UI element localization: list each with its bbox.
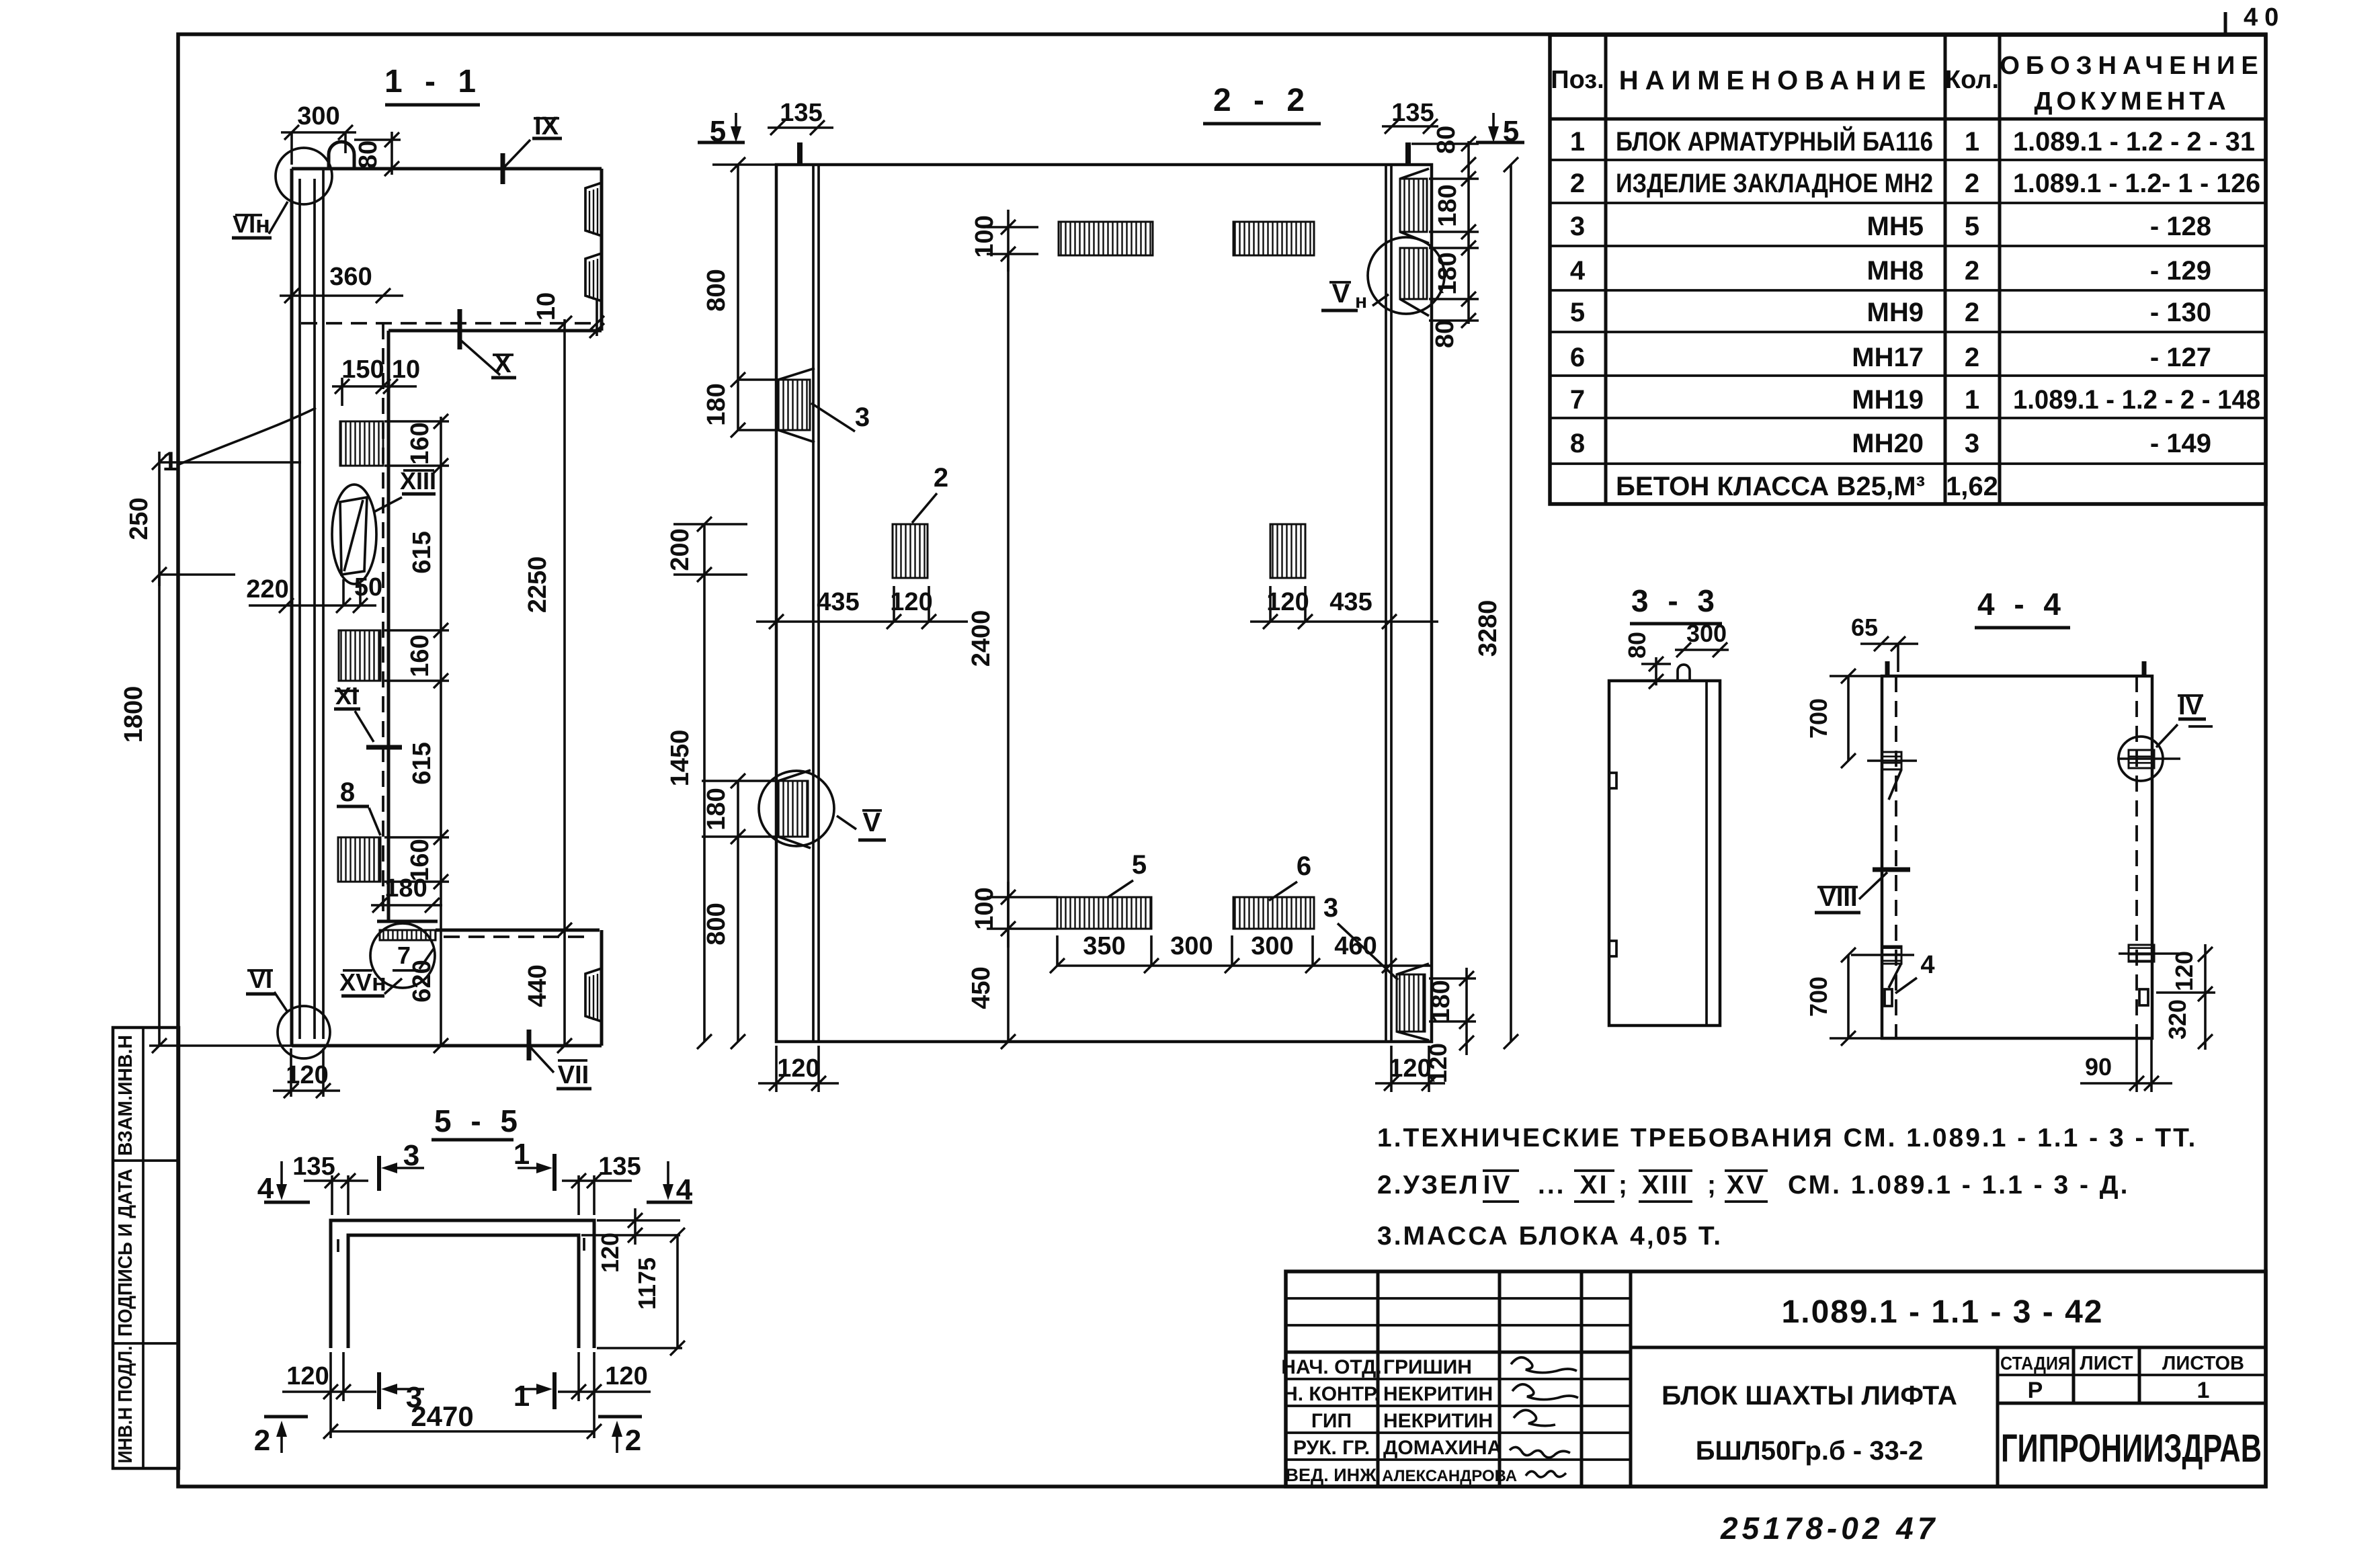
svg-text:435: 435 <box>817 588 859 616</box>
svg-text:300: 300 <box>1170 932 1213 960</box>
svg-text:Н. КОНТР.: Н. КОНТР. <box>1283 1383 1380 1405</box>
svg-text:90: 90 <box>2085 1053 2112 1081</box>
svg-text:VI: VI <box>249 966 272 993</box>
svg-text:440: 440 <box>524 964 552 1007</box>
svg-text:ПОДПИСЬ И ДАТА: ПОДПИСЬ И ДАТА <box>115 1169 136 1337</box>
svg-text:ОБОЗНАЧЕНИЕ: ОБОЗНАЧЕНИЕ <box>2000 52 2264 80</box>
svg-text:120: 120 <box>1389 1054 1431 1083</box>
svg-text:2: 2 <box>625 1424 641 1457</box>
svg-text:2: 2 <box>1965 343 1979 372</box>
svg-text:8: 8 <box>1570 429 1585 458</box>
svg-text:6: 6 <box>1297 851 1311 881</box>
svg-text:НЕКРИТИН: НЕКРИТИН <box>1383 1383 1493 1405</box>
svg-text:IX: IX <box>534 112 559 140</box>
svg-text:1.089.1 - 1.2 - 2 - 31: 1.089.1 - 1.2 - 2 - 31 <box>2013 127 2255 157</box>
svg-text:1.089.1 - 1.1 - 3 - 42: 1.089.1 - 1.1 - 3 - 42 <box>1782 1294 2104 1330</box>
svg-text:3280: 3280 <box>1474 600 1502 657</box>
svg-text:VIн: VIн <box>233 210 270 238</box>
svg-text:800: 800 <box>702 269 731 311</box>
svg-text:460: 460 <box>1334 932 1377 960</box>
svg-text:IV: IV <box>1483 1171 1512 1200</box>
svg-text:1,62: 1,62 <box>1946 472 1998 501</box>
svg-text:80: 80 <box>354 140 382 169</box>
svg-text:3: 3 <box>1323 893 1338 923</box>
svg-text:ИНВ.Н ПОДЛ.: ИНВ.Н ПОДЛ. <box>115 1346 136 1464</box>
svg-text:450: 450 <box>967 966 995 1009</box>
svg-text:320: 320 <box>2164 999 2191 1040</box>
svg-text:2: 2 <box>1965 256 1979 286</box>
svg-text:180: 180 <box>702 383 731 425</box>
svg-text:ЛИСТОВ: ЛИСТОВ <box>2162 1353 2244 1374</box>
svg-text:120: 120 <box>596 1232 624 1273</box>
svg-text:ВЗАМ.ИНВ.Н: ВЗАМ.ИНВ.Н <box>115 1035 136 1156</box>
svg-text:ГИП: ГИП <box>1311 1410 1352 1432</box>
svg-text:2: 2 <box>1965 298 1979 327</box>
svg-text:1: 1 <box>514 1380 530 1413</box>
svg-text:180: 180 <box>1427 980 1455 1022</box>
svg-text:100: 100 <box>971 887 999 929</box>
svg-text:50: 50 <box>354 573 382 601</box>
svg-text:IV: IV <box>2178 692 2203 720</box>
svg-text:360: 360 <box>329 263 372 291</box>
svg-text:150: 150 <box>341 356 384 384</box>
svg-text:4: 4 <box>257 1172 274 1205</box>
svg-text:V: V <box>863 808 881 837</box>
svg-text:МН9: МН9 <box>1867 298 1924 327</box>
svg-text:XI: XI <box>1580 1171 1609 1200</box>
svg-text:180: 180 <box>384 874 427 903</box>
svg-text:ГРИШИН: ГРИШИН <box>1383 1356 1472 1378</box>
svg-text:700: 700 <box>1805 698 1832 739</box>
svg-text:XV: XV <box>1727 1171 1766 1200</box>
svg-text:615: 615 <box>408 742 436 784</box>
svg-text:2 - 2: 2 - 2 <box>1213 83 1311 118</box>
svg-text:РУК. ГР.: РУК. ГР. <box>1293 1437 1370 1459</box>
svg-text:1: 1 <box>1965 385 1979 415</box>
svg-text:7: 7 <box>1570 385 1585 415</box>
svg-text:6: 6 <box>1570 343 1585 372</box>
svg-text:ВЕД. ИНЖ: ВЕД. ИНЖ <box>1285 1465 1377 1485</box>
svg-text:НАЧ. ОТД.: НАЧ. ОТД. <box>1281 1356 1381 1378</box>
svg-text:- 127: - 127 <box>2150 343 2211 372</box>
svg-text:2.УЗЕЛ: 2.УЗЕЛ <box>1377 1171 1480 1200</box>
svg-text:1450: 1450 <box>666 730 694 787</box>
svg-text:180: 180 <box>702 788 731 830</box>
svg-text:350: 350 <box>1083 932 1125 960</box>
svg-text:МН8: МН8 <box>1867 256 1924 286</box>
svg-text:НЕКРИТИН: НЕКРИТИН <box>1383 1410 1493 1432</box>
svg-text:3.МАССА БЛОКА 4,05 Т.: 3.МАССА БЛОКА 4,05 Т. <box>1377 1222 1723 1251</box>
svg-text:4: 4 <box>1570 256 1586 286</box>
svg-text:615: 615 <box>408 531 436 573</box>
svg-text:4: 4 <box>1920 951 1934 979</box>
svg-text:3: 3 <box>1570 212 1585 241</box>
svg-text:120: 120 <box>890 588 932 616</box>
svg-text:300: 300 <box>297 102 339 130</box>
svg-text:10: 10 <box>532 292 561 321</box>
svg-text:ДОКУМЕНТА: ДОКУМЕНТА <box>2034 87 2229 116</box>
svg-text:120: 120 <box>286 1362 329 1390</box>
svg-text:1 - 1: 1 - 1 <box>384 64 483 99</box>
svg-text:МН17: МН17 <box>1852 343 1924 372</box>
svg-text:620: 620 <box>408 960 436 1002</box>
svg-text:Поз.: Поз. <box>1551 66 1604 94</box>
svg-text:5: 5 <box>1132 850 1147 880</box>
svg-text:2470: 2470 <box>411 1400 473 1432</box>
svg-text:МН19: МН19 <box>1852 385 1924 415</box>
svg-text:10: 10 <box>392 356 420 384</box>
svg-text:;: ; <box>1707 1171 1718 1200</box>
svg-text:700: 700 <box>1805 976 1832 1017</box>
svg-text:435: 435 <box>1329 588 1372 616</box>
svg-text:ИЗДЕЛИЕ ЗАКЛАДНОЕ МН2: ИЗДЕЛИЕ ЗАКЛАДНОЕ МН2 <box>1616 169 1933 198</box>
svg-text:100: 100 <box>971 215 999 257</box>
svg-text:120: 120 <box>2170 951 2198 991</box>
svg-text:2: 2 <box>1570 169 1585 198</box>
svg-text:250: 250 <box>125 497 153 540</box>
svg-text:135: 135 <box>1391 99 1434 127</box>
svg-text:VIII: VIII <box>1819 884 1857 912</box>
svg-text:XVн: XVн <box>339 968 386 996</box>
svg-text:65: 65 <box>1851 614 1878 641</box>
svg-text:3: 3 <box>855 403 870 432</box>
svg-text:120: 120 <box>286 1061 328 1089</box>
svg-text:180: 180 <box>1434 252 1462 294</box>
svg-text:1: 1 <box>1570 127 1585 157</box>
svg-text:1.089.1 - 1.2 - 2 - 148: 1.089.1 - 1.2 - 2 - 148 <box>2013 385 2260 415</box>
svg-text:120: 120 <box>605 1362 647 1390</box>
svg-text:- 130: - 130 <box>2150 298 2211 327</box>
svg-text:XI: XI <box>335 682 358 710</box>
svg-text:XIII: XIII <box>1642 1171 1690 1200</box>
svg-text:V: V <box>1332 279 1350 308</box>
svg-text:200: 200 <box>666 528 694 571</box>
svg-text:2250: 2250 <box>524 556 552 614</box>
svg-text:ЛИСТ: ЛИСТ <box>2080 1353 2133 1374</box>
svg-text:160: 160 <box>406 634 434 677</box>
svg-text:135: 135 <box>292 1153 335 1181</box>
svg-text:3 - 3: 3 - 3 <box>1631 583 1720 618</box>
svg-text:1: 1 <box>514 1138 530 1171</box>
svg-text:- 149: - 149 <box>2150 429 2211 458</box>
svg-text:2: 2 <box>254 1424 270 1457</box>
svg-text:1: 1 <box>2197 1378 2210 1403</box>
svg-text:1.089.1 - 1.2- 1 - 126: 1.089.1 - 1.2- 1 - 126 <box>2013 169 2260 198</box>
svg-text:1800: 1800 <box>120 686 148 743</box>
svg-text:БЛОК АРМАТУРНЫЙ БА116: БЛОК АРМАТУРНЫЙ БА116 <box>1616 126 1933 157</box>
svg-text:- 128: - 128 <box>2150 212 2211 241</box>
svg-text:25178-02 47: 25178-02 47 <box>1720 1511 1938 1546</box>
svg-text:180: 180 <box>1434 184 1462 226</box>
svg-text:ГИПРОНИИЗДРАВ: ГИПРОНИИЗДРАВ <box>2001 1427 2262 1470</box>
svg-text:2: 2 <box>1965 169 1979 198</box>
svg-text:120: 120 <box>777 1054 819 1083</box>
svg-text:1: 1 <box>1965 127 1979 157</box>
svg-text:;: ; <box>1618 1171 1629 1200</box>
svg-text:Р: Р <box>2028 1378 2043 1403</box>
svg-text:135: 135 <box>780 99 822 127</box>
svg-text:5: 5 <box>1965 212 1979 241</box>
svg-text:80: 80 <box>1431 320 1459 348</box>
svg-text:80: 80 <box>1432 126 1461 154</box>
svg-text:2400: 2400 <box>967 610 995 667</box>
svg-text:VII: VII <box>558 1061 589 1089</box>
svg-text:80: 80 <box>1623 632 1651 659</box>
svg-text:- 129: - 129 <box>2150 256 2211 286</box>
svg-text:3: 3 <box>1965 429 1979 458</box>
svg-text:220: 220 <box>246 575 288 603</box>
svg-text:ДОМАХИНА: ДОМАХИНА <box>1383 1437 1502 1459</box>
svg-text:800: 800 <box>702 903 731 945</box>
svg-text:120: 120 <box>1266 588 1309 616</box>
svg-text:300: 300 <box>1686 620 1727 647</box>
svg-text:1.ТЕХНИЧЕСКИЕ ТРЕБОВАНИЯ СМ.: 1.ТЕХНИЧЕСКИЕ ТРЕБОВАНИЯ СМ. 1.089.1 - 1… <box>1377 1124 2197 1153</box>
svg-text:5 - 5: 5 - 5 <box>434 1103 523 1138</box>
svg-text:1175: 1175 <box>633 1257 661 1310</box>
svg-text:БШЛ50Гр.б - 33-2: БШЛ50Гр.б - 33-2 <box>1696 1436 1924 1466</box>
svg-text:МН5: МН5 <box>1867 212 1924 241</box>
svg-text:БЕТОН КЛАССА В25,М³: БЕТОН КЛАССА В25,М³ <box>1616 472 1925 501</box>
svg-text:40: 40 <box>2244 3 2285 32</box>
svg-text:СМ. 1.089.1 - 1.1 - 3 - Д.: СМ. 1.089.1 - 1.1 - 3 - Д. <box>1788 1171 2129 1200</box>
svg-text:4 - 4: 4 - 4 <box>1977 587 2066 622</box>
svg-text:СТАДИЯ: СТАДИЯ <box>2000 1353 2070 1374</box>
svg-text:135: 135 <box>598 1153 641 1181</box>
svg-text:АЛЕКСАНДРОВА: АЛЕКСАНДРОВА <box>1382 1467 1517 1485</box>
svg-text:Кол.: Кол. <box>1945 66 1999 94</box>
svg-text:X: X <box>494 350 511 378</box>
svg-text:8: 8 <box>340 778 355 807</box>
svg-text:160: 160 <box>406 422 434 464</box>
svg-text:НАИМЕНОВАНИЕ: НАИМЕНОВАНИЕ <box>1619 66 1933 95</box>
svg-text:МН20: МН20 <box>1852 429 1924 458</box>
svg-text:XIII: XIII <box>400 467 436 495</box>
svg-text:2: 2 <box>934 463 948 493</box>
svg-text:БЛОК ШАХТЫ ЛИФТА: БЛОК ШАХТЫ ЛИФТА <box>1661 1381 1957 1411</box>
svg-text:5: 5 <box>1570 298 1585 327</box>
svg-text:...: ... <box>1538 1171 1566 1200</box>
svg-text:300: 300 <box>1251 932 1293 960</box>
